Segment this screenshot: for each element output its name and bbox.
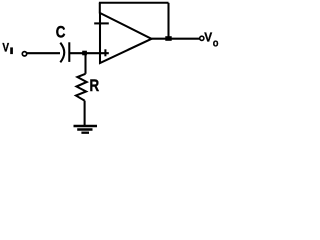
wire: feedback right vertical down to output bbox=[167, 3, 169, 39]
output terminal (open circle) bbox=[200, 36, 204, 40]
capacitor C (curved plate) bbox=[60, 43, 64, 63]
capacitor C (straight plate) bbox=[68, 42, 70, 62]
svg-text:C: C bbox=[56, 23, 66, 42]
wire: feedback vertical (left, down to op-amp) bbox=[99, 3, 101, 14]
junction dot (C / R node) bbox=[82, 51, 87, 56]
wire: op-amp output to terminal bbox=[152, 38, 200, 40]
svg-text:R: R bbox=[90, 76, 100, 95]
op-amp inverting input lead / minus mark bbox=[94, 22, 109, 24]
resistor R (zigzag) bbox=[76, 74, 87, 101]
svg-text:o: o bbox=[213, 38, 219, 50]
junction dot (feedback / output node) bbox=[165, 36, 171, 41]
svg-text:V: V bbox=[204, 30, 213, 45]
wire: feedback top horizontal bbox=[99, 2, 169, 4]
wire: resistor to ground bbox=[84, 101, 86, 125]
wire: input terminal to capacitor bbox=[27, 52, 60, 54]
wire: node down to resistor R bbox=[84, 53, 86, 74]
wire: capacitor to op-amp + input bbox=[69, 52, 109, 54]
input terminal (open circle) bbox=[22, 52, 26, 56]
label Vi bbox=[2, 42, 13, 55]
ground bbox=[74, 126, 98, 133]
op-amp plus mark (+ input) bbox=[104, 49, 106, 56]
op-amp U1 (triangle) bbox=[100, 13, 152, 63]
label Vo bbox=[204, 30, 218, 50]
svg-text:V: V bbox=[2, 42, 9, 55]
